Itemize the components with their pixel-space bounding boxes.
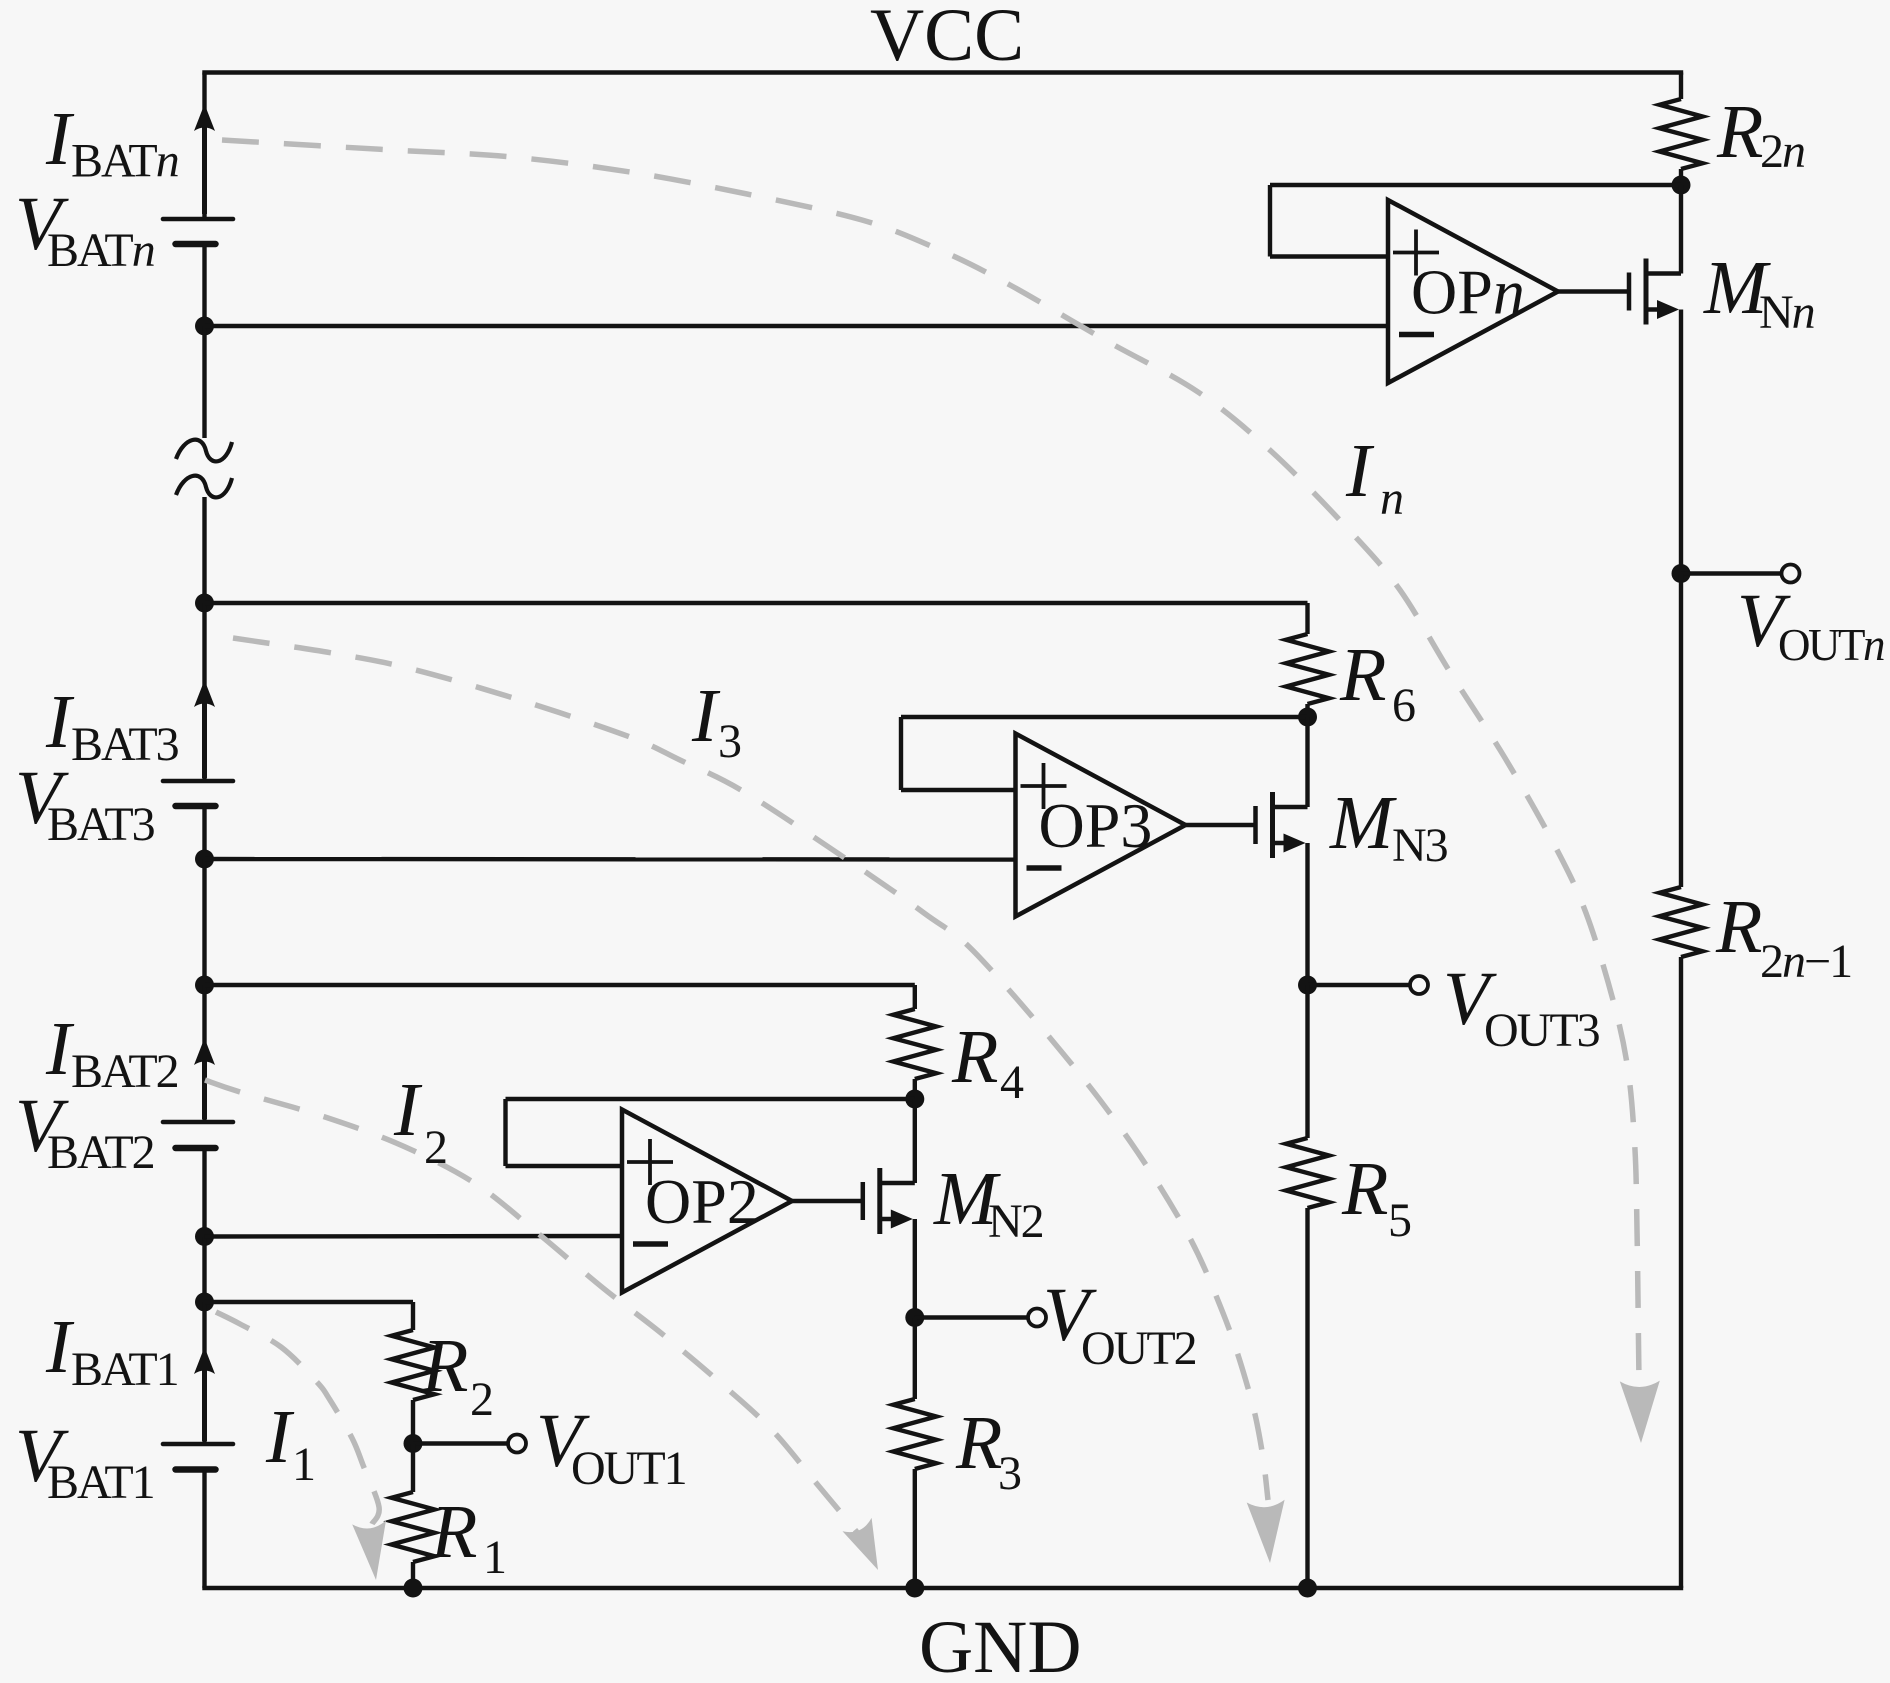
label GND	[919, 1606, 1082, 1683]
label MN2	[933, 1157, 1043, 1248]
label IBATn	[45, 97, 179, 188]
wire R2 top tap	[205, 1302, 414, 1330]
svg-text:OP3: OP3	[1039, 790, 1153, 861]
svg-text:R: R	[1716, 90, 1763, 174]
node R2 tap	[195, 1293, 214, 1312]
wire node to battery 3	[202, 603, 206, 781]
wire left rail top segment	[202, 73, 206, 220]
resistor R4	[893, 1009, 936, 1079]
svg-text:BATn: BATn	[71, 135, 179, 188]
current arrow IBATn	[194, 104, 215, 214]
label R1 value	[430, 1490, 505, 1584]
svg-text:4: 4	[1000, 1056, 1024, 1109]
wire R1 to GND	[411, 1562, 415, 1588]
label VCC	[870, 0, 1024, 77]
svg-text:I: I	[265, 1395, 295, 1479]
svg-text:BAT1: BAT1	[71, 1343, 178, 1396]
svg-text:N3: N3	[1392, 819, 1448, 872]
wire R6 top tap	[205, 603, 1308, 634]
wire GND rail	[202, 1586, 1683, 1590]
battery VBAT3	[163, 781, 233, 806]
wire R6 to node	[1305, 704, 1309, 717]
label R5 value	[1341, 1147, 1411, 1247]
label In	[1345, 429, 1403, 525]
node R4 bottom	[905, 1090, 924, 1109]
label VBATn	[15, 182, 155, 277]
current path I2 (dashed)	[205, 1080, 878, 1570]
svg-text:BATn: BATn	[47, 224, 155, 277]
wire node to battery 2	[202, 985, 206, 1122]
wire VCC rail	[202, 70, 1683, 74]
battery VBAT2	[163, 1122, 233, 1148]
svg-text:N2: N2	[988, 1195, 1043, 1248]
node R6 bottom	[1298, 708, 1317, 727]
resistor R2n	[1660, 99, 1703, 169]
wire break to node3	[202, 497, 206, 603]
wire VOUTn terminal lead	[1681, 571, 1781, 575]
current arrow IBAT2	[194, 1038, 215, 1119]
label R2n value	[1716, 90, 1805, 178]
svg-text:1: 1	[483, 1531, 505, 1584]
svg-text:BAT3: BAT3	[71, 718, 179, 771]
node OP3 inverting tap	[195, 850, 214, 869]
label I3	[691, 674, 741, 768]
svg-text:3: 3	[718, 715, 741, 768]
svg-text:5: 5	[1388, 1194, 1411, 1247]
svg-text:BAT2: BAT2	[71, 1045, 178, 1098]
node VOUT2	[905, 1308, 924, 1327]
svg-text:R: R	[951, 1015, 998, 1099]
svg-text:2: 2	[470, 1373, 492, 1426]
wire MNn source to VOUTn node	[1679, 310, 1683, 574]
label VOUT3	[1443, 957, 1600, 1057]
node VOUTn	[1672, 564, 1691, 583]
wire node to battery 1	[202, 1302, 206, 1444]
op-amp OPn	[1388, 200, 1558, 383]
wire battery 1 to GND	[202, 1470, 206, 1589]
svg-text:OUT1: OUT1	[571, 1442, 686, 1495]
resistor R5	[1286, 1138, 1329, 1208]
svg-text:BAT1: BAT1	[47, 1456, 154, 1509]
node VOUT1	[404, 1434, 423, 1453]
wire VOUT3 terminal lead	[1308, 983, 1411, 987]
wire to R1	[411, 1444, 415, 1493]
svg-text:n: n	[1380, 472, 1403, 525]
label R2n-1 value	[1715, 885, 1851, 988]
wire to R5	[1305, 985, 1309, 1138]
wire OP2 inverting input	[205, 1234, 623, 1239]
label VBAT3	[15, 756, 155, 851]
transistor MNn	[1629, 259, 1681, 325]
wire OP3 feedback	[901, 717, 1308, 790]
current path I3 (dashed)	[233, 638, 1285, 1563]
wire VOUT1 terminal lead	[413, 1441, 508, 1445]
wire OP2 output to gate	[792, 1199, 863, 1203]
break symbol (chain continues)	[176, 440, 232, 498]
wire to R4 tap node	[202, 859, 206, 985]
node OP2 inverting tap	[195, 1227, 214, 1246]
label IBAT2	[45, 1007, 178, 1098]
svg-text:R: R	[1715, 885, 1762, 969]
op-amp OP2	[622, 1110, 792, 1293]
terminal VOUTn	[1782, 565, 1800, 583]
wire OP3 inverting input	[205, 857, 1016, 862]
terminal VOUT3	[1410, 976, 1428, 994]
wire OPn output to gate	[1558, 289, 1629, 293]
label R6 value	[1339, 633, 1415, 732]
svg-text:R: R	[955, 1401, 1002, 1485]
wire OP2 feedback	[506, 1099, 915, 1166]
wire battery 3 to node	[202, 806, 206, 859]
label IBAT3	[45, 680, 179, 771]
wire to R2 tap node	[202, 1237, 206, 1303]
wire VOUT2 terminal lead	[915, 1315, 1028, 1319]
node OPn inverting tap	[195, 317, 214, 336]
label R4 value	[951, 1015, 1024, 1109]
battery VBAT1	[163, 1444, 233, 1470]
op-amp OP3	[1016, 734, 1186, 917]
label I1	[265, 1395, 314, 1491]
node R5 bottom GND	[1298, 1579, 1317, 1598]
wire R5 to GND	[1305, 1208, 1309, 1588]
svg-text:1: 1	[292, 1438, 314, 1491]
current arrow IBAT1	[194, 1347, 215, 1441]
resistor R2n-1	[1660, 887, 1703, 957]
wire node to break	[202, 326, 206, 438]
node R6 tap	[195, 594, 214, 613]
terminal VOUT2	[1028, 1309, 1046, 1327]
wire to R3	[913, 1318, 917, 1400]
svg-text:Nn: Nn	[1759, 286, 1815, 339]
wire R3 to GND	[913, 1469, 917, 1588]
label VBAT2	[15, 1084, 154, 1179]
wire R2 to node	[411, 1400, 415, 1444]
node R1 bottom GND	[404, 1579, 423, 1598]
svg-text:R: R	[1339, 633, 1386, 717]
terminal VOUT1	[508, 1435, 526, 1453]
current arrow IBAT3	[194, 680, 215, 778]
label VBAT1	[15, 1414, 154, 1509]
svg-text:2n−1: 2n−1	[1760, 935, 1851, 988]
resistor R1	[392, 1492, 435, 1562]
svg-text:M: M	[1329, 781, 1397, 865]
svg-text:6: 6	[1392, 679, 1415, 732]
node R3 bottom GND	[905, 1579, 924, 1598]
node R2n bottom	[1672, 176, 1691, 195]
wire R4 to node	[913, 1079, 917, 1099]
label VOUT2	[1043, 1273, 1196, 1375]
svg-text:OP2: OP2	[645, 1166, 759, 1237]
wire R2n-1 to GND	[1679, 957, 1683, 1588]
svg-text:OUT3: OUT3	[1484, 1004, 1600, 1057]
svg-text:I: I	[1345, 429, 1375, 513]
svg-text:OUT2: OUT2	[1081, 1322, 1196, 1375]
wire MNn drain	[1679, 185, 1683, 274]
label VOUT1	[536, 1399, 686, 1495]
svg-text:3: 3	[998, 1447, 1021, 1500]
svg-text:I: I	[691, 674, 721, 758]
svg-text:2: 2	[424, 1121, 446, 1174]
resistor R3	[893, 1399, 936, 1469]
wire MN2 source to VOUT2 node	[913, 1219, 917, 1318]
label MN3	[1329, 781, 1448, 872]
battery VBATn	[163, 219, 233, 244]
svg-text:VCC: VCC	[870, 0, 1024, 77]
wire OPn feedback	[1270, 185, 1681, 257]
wire MN2 drain	[913, 1099, 917, 1183]
label VOUTn	[1737, 579, 1884, 670]
wire battery 2 to node	[202, 1148, 206, 1237]
svg-text:GND: GND	[919, 1606, 1082, 1683]
node R4 tap	[195, 976, 214, 995]
resistor R2	[392, 1330, 435, 1400]
svg-text:BAT3: BAT3	[47, 798, 155, 851]
wire to R2n-1	[1679, 574, 1683, 888]
label R3 value	[955, 1401, 1021, 1500]
wire OPn inverting input	[205, 324, 1389, 328]
wire battery n to node	[202, 244, 206, 326]
wire R2n to node	[1679, 169, 1683, 185]
node VOUT3	[1298, 976, 1317, 995]
current path In (dashed)	[222, 140, 1660, 1443]
current path I1 (dashed)	[216, 1312, 386, 1580]
wire R4 top tap	[205, 985, 915, 1009]
svg-text:I: I	[393, 1068, 423, 1152]
label MNn	[1703, 246, 1815, 339]
wire MN3 drain	[1305, 717, 1309, 807]
transistor MN2	[863, 1168, 915, 1234]
svg-text:BAT2: BAT2	[47, 1126, 154, 1179]
svg-text:OUTn: OUTn	[1778, 620, 1884, 670]
label IBAT1	[45, 1305, 178, 1396]
wire MN3 source to VOUT3 node	[1305, 843, 1309, 985]
svg-text:OPn: OPn	[1411, 257, 1525, 328]
wire OP3 output to gate	[1186, 823, 1256, 827]
wire right rail top	[1679, 73, 1683, 100]
resistor R6	[1286, 634, 1329, 704]
label R2 value	[421, 1324, 492, 1426]
label I2	[393, 1068, 446, 1174]
svg-text:R: R	[430, 1490, 477, 1574]
svg-text:R: R	[1341, 1147, 1388, 1231]
transistor MN3	[1256, 792, 1308, 858]
svg-text:R: R	[421, 1324, 468, 1408]
svg-text:2n: 2n	[1760, 125, 1805, 178]
